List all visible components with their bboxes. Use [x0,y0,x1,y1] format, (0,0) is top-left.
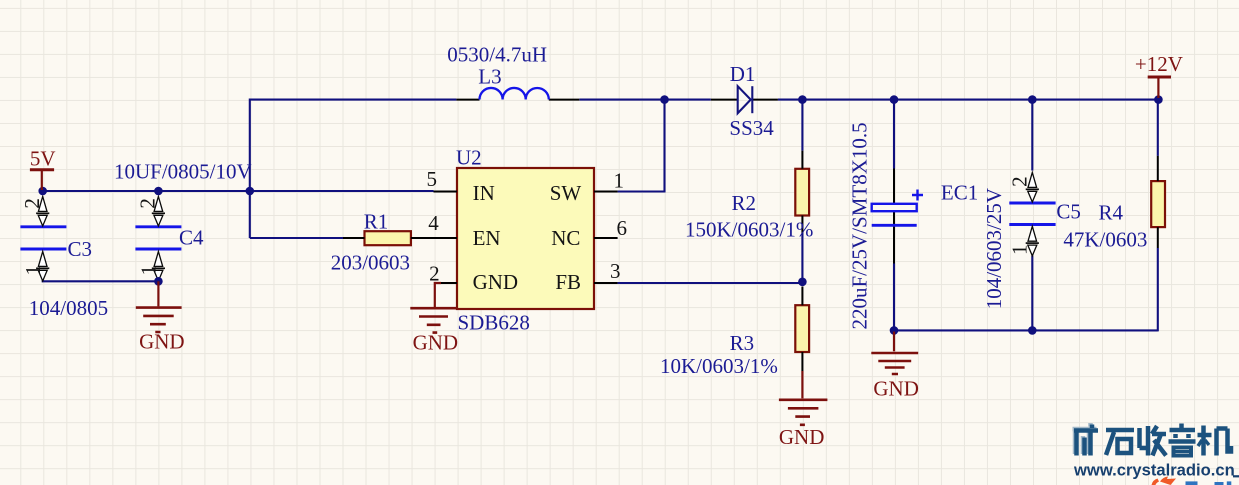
svg-text:SW: SW [550,181,582,205]
svg-text:203/0603: 203/0603 [331,251,410,275]
svg-text:GND: GND [413,331,459,355]
svg-text:2: 2 [1008,176,1032,187]
svg-text:R3: R3 [730,331,755,355]
svg-text:2: 2 [136,198,160,209]
svg-text:47K/0603: 47K/0603 [1063,228,1147,252]
svg-text:U2: U2 [456,146,482,170]
svg-text:GND: GND [873,376,919,400]
svg-text:6: 6 [617,216,628,240]
svg-text:EN: EN [473,226,501,250]
svg-text:GND: GND [139,330,185,354]
svg-text:C3: C3 [68,237,93,261]
svg-text:NC: NC [551,226,580,250]
svg-text:IN: IN [473,181,495,205]
svg-text:150K/0603/1%: 150K/0603/1% [685,218,813,242]
svg-text:0530/4.7uH: 0530/4.7uH [447,43,547,67]
svg-text:2: 2 [20,198,44,209]
svg-text:10K/0603/1%: 10K/0603/1% [660,354,778,378]
svg-text:R2: R2 [732,191,757,215]
svg-text:+12V: +12V [1135,52,1183,76]
svg-text:220uF/25V/SMT8X10.5: 220uF/25V/SMT8X10.5 [848,122,872,329]
svg-text:GND: GND [779,425,825,449]
svg-text:www.crystalradio.cn: www.crystalradio.cn [1073,461,1235,480]
svg-text:1: 1 [21,265,45,276]
svg-text:4: 4 [428,211,439,235]
svg-text:L3: L3 [478,65,501,89]
svg-text:EC1: EC1 [941,180,978,204]
svg-text:1: 1 [137,265,161,276]
svg-text:3: 3 [610,259,621,283]
svg-text:SDB628: SDB628 [458,311,530,335]
svg-text:C4: C4 [179,226,204,250]
svg-text:C5: C5 [1056,200,1081,224]
svg-text:GND: GND [473,270,518,294]
svg-text:1: 1 [1008,244,1032,255]
svg-text:2: 2 [429,262,440,286]
svg-text:SS34: SS34 [729,116,774,140]
svg-text:1: 1 [614,169,625,193]
svg-text:104/0603/25V: 104/0603/25V [982,188,1006,309]
svg-text:R4: R4 [1099,201,1124,225]
svg-text:FB: FB [555,270,581,294]
svg-text:5V: 5V [30,147,56,171]
svg-text:10UF/0805/10V: 10UF/0805/10V [114,160,252,184]
svg-text:R1: R1 [364,209,389,233]
svg-text:D1: D1 [730,62,756,86]
svg-text:5: 5 [427,167,438,191]
svg-text:104/0805: 104/0805 [29,296,108,320]
